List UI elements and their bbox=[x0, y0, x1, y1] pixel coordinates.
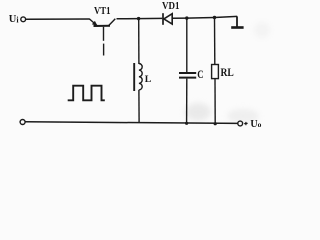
drive pulse waveform bbox=[68, 86, 105, 101]
transistor VT1 bbox=[90, 5, 116, 56]
wire bbox=[26, 18, 90, 20]
wire bbox=[117, 17, 163, 19]
wire bbox=[215, 16, 238, 17]
svg-text:L: L bbox=[145, 74, 152, 85]
wire bbox=[173, 17, 187, 19]
svg-text:VD1: VD1 bbox=[162, 1, 180, 12]
diode VD1 bbox=[162, 1, 180, 25]
output terminal +Uo bbox=[238, 119, 262, 130]
ground bbox=[231, 16, 243, 27]
node C bbox=[213, 16, 216, 19]
wire bbox=[25, 122, 237, 124]
wire bbox=[187, 17, 215, 20]
input terminal (negative) bbox=[20, 120, 25, 125]
node B bbox=[185, 16, 188, 19]
inductor L bbox=[134, 19, 152, 123]
node A bbox=[137, 17, 140, 20]
node E bbox=[214, 122, 217, 125]
svg-text:Uo: Uo bbox=[250, 119, 261, 130]
node D bbox=[185, 122, 188, 125]
svg-text:VT1: VT1 bbox=[94, 5, 111, 17]
resistor RL bbox=[212, 18, 234, 124]
svg-text:Ui: Ui bbox=[9, 14, 20, 25]
svg-text:C: C bbox=[197, 69, 203, 81]
input terminal Ui bbox=[9, 14, 26, 25]
svg-text:RL: RL bbox=[221, 65, 234, 79]
capacitor C bbox=[179, 18, 204, 123]
